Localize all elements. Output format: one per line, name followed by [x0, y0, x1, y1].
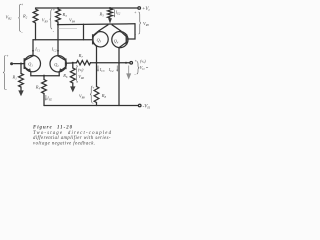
- wire: +Vcc top supply rail: [36, 7, 138, 9]
- wire: output node down to R8: [96, 63, 98, 87]
- wire: Q1 base node down to R1: [20, 64, 22, 74]
- node: junction dot R3 top on Vcc rail: [57, 7, 59, 9]
- ground arrow below R6: [72, 83, 74, 87]
- resistor R3 (Q2 collector load): [56, 9, 61, 22]
- ground arrow at output (grey): [128, 66, 130, 74]
- svg-text:(vf): (vf): [78, 67, 84, 73]
- wire: R8 to -Vee rail: [96, 103, 98, 106]
- wire: Q3 emitter stub to junction: [99, 25, 109, 31]
- wire: R2 bottom to Q1 collector node: [35, 23, 37, 40]
- wire: Q3 collector down to output node: [96, 47, 98, 63]
- brace VR5 (right, across R5): [139, 12, 142, 34]
- transistor Q4: [112, 31, 128, 48]
- wire: coupling Q1 collector to Q3 base: [33, 39, 93, 41]
- svg-text:-VEE: -VEE: [143, 105, 150, 110]
- current arrowhead IC1: [32, 50, 34, 53]
- node: junction dot R7/output: [95, 62, 97, 64]
- wire: output node horizontal: [97, 62, 130, 64]
- wire: -Vee bottom supply rail: [44, 105, 138, 107]
- svg-text:+: +: [134, 10, 136, 14]
- wire: short vertical link at x=83.5: [83, 24, 85, 39]
- wire: Q2 emitter down: [58, 72, 60, 76]
- wire: tap down to R6: [72, 63, 74, 68]
- resistor R1 (input bias): [19, 74, 24, 88]
- wire: coupling down right side to Q4 base: [128, 24, 136, 39]
- current annotation IC4 arrow: [116, 66, 118, 71]
- current arrowhead IC2: [57, 50, 59, 53]
- svg-text:+VCC: +VCC: [142, 7, 150, 12]
- resistor R5 (second stage emitter resistor): [108, 9, 113, 19]
- wire: Q2 base to R7: [66, 62, 77, 65]
- resistor R7 (feedback, horizontal): [77, 61, 91, 65]
- brace VR2: [18, 4, 21, 31]
- wire: R7 to output node: [91, 62, 97, 64]
- node: junction dot emitters/R4: [43, 75, 45, 77]
- node: junction dot Q4 collector line crossing: [118, 62, 120, 64]
- node: junction dot R5 top on Vcc rail: [109, 7, 111, 9]
- current annotation IC3: [97, 66, 99, 71]
- resistor R4 (first stage emitter resistor): [43, 76, 45, 80]
- terminal: output: [130, 62, 133, 65]
- wire: coupling Q2 collector to Q4 base (horizontal run): [58, 23, 135, 26]
- wire: Q1 emitter down and across: [31, 72, 59, 76]
- terminal -Vee: [138, 104, 141, 107]
- terminal +Vcc: [138, 7, 141, 10]
- transistor Q3: [93, 31, 108, 47]
- transistor Q2: [50, 56, 66, 72]
- wire: R4 to -Vee rail: [43, 94, 45, 106]
- wire: input to Q1 base: [14, 63, 25, 65]
- wire: faint scan ghost line below coupling wire: [58, 27, 77, 29]
- node: junction dot near output terminal: [125, 62, 127, 64]
- current annotation IEE below R4: [45, 95, 47, 100]
- svg-text:voltage negative feedback.: voltage negative feedback.: [33, 141, 95, 146]
- svg-text:+: +: [92, 86, 94, 90]
- ground arrow below R1: [20, 87, 22, 91]
- current annotation IE2 beside R5: [113, 10, 115, 17]
- node: junction dot input/R1: [20, 63, 22, 65]
- wire: Q1 collector vertical: [32, 40, 34, 56]
- svg-text:+: +: [6, 54, 8, 58]
- svg-text:+: +: [135, 59, 137, 63]
- wire: R3 bottom down to Q2 collector: [57, 22, 59, 56]
- resistor R8 (output load): [94, 87, 99, 103]
- wire: Q4 collector down to -Vee rail: [118, 48, 120, 106]
- emitter junction arrowhead below R5: [108, 18, 112, 23]
- svg-text:+: +: [53, 8, 55, 12]
- resistor R6 (feedback divider lower): [70, 68, 75, 83]
- transistor Q1: [24, 55, 40, 71]
- caption: figure title: [33, 126, 112, 147]
- node: junction dot R6 tap: [72, 62, 74, 64]
- brace VR6: [75, 67, 78, 83]
- svg-text:+: +: [21, 2, 23, 6]
- brace Vo: [137, 62, 140, 75]
- node: junction dot Q2-collector / coupling wire: [57, 24, 59, 26]
- brace VR8: [90, 86, 93, 103]
- brace VR3: [50, 10, 53, 30]
- resistor R2 (Q1 collector load): [33, 9, 38, 23]
- brace input Vi: [3, 56, 6, 90]
- terminal: input: [10, 62, 13, 65]
- wire: Q4 emitter stub to junction: [112, 25, 121, 31]
